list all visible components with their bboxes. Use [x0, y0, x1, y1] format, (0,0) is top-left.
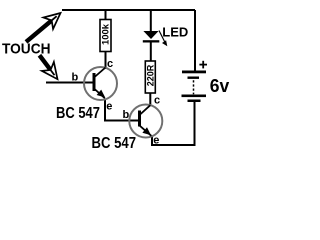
svg-text:6v: 6v — [210, 76, 230, 96]
svg-text:b: b — [123, 109, 130, 121]
svg-text:c: c — [107, 58, 113, 70]
svg-text:220R: 220R — [146, 64, 156, 86]
svg-text:100k: 100k — [101, 23, 111, 45]
svg-text:c: c — [154, 94, 160, 106]
svg-text:BC 547: BC 547 — [56, 105, 100, 122]
svg-text:e: e — [153, 135, 159, 147]
svg-text:b: b — [72, 72, 79, 84]
svg-text:TOUCH: TOUCH — [2, 40, 51, 57]
svg-text:LED: LED — [162, 24, 188, 39]
svg-text:BC 547: BC 547 — [92, 135, 137, 152]
svg-text:e: e — [106, 100, 112, 112]
